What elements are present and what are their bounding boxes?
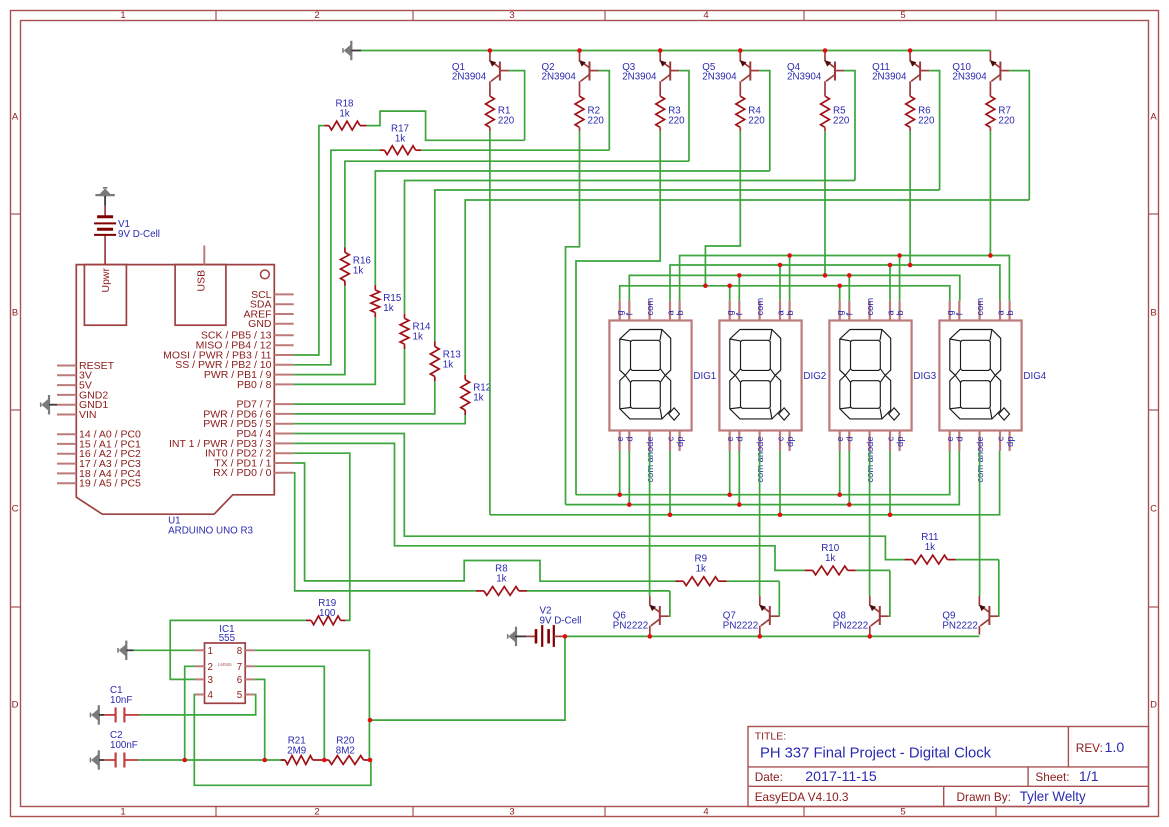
wire base loop Q6 [669, 591, 670, 616]
wire pin5 to C1 [140, 695, 256, 715]
wire base loop Q4 [844, 71, 855, 181]
resistor R13 [430, 342, 439, 382]
labels DIG4 top pins [945, 298, 1015, 316]
svg-text:2N3904: 2N3904 [622, 72, 657, 83]
svg-text:7: 7 [237, 662, 242, 673]
svg-text:B: B [1150, 307, 1156, 318]
junction net g R4 [703, 284, 708, 289]
wire R13 to arduino [294, 381, 435, 414]
wire C2 to pin2 node [138, 759, 265, 761]
wire tap b DIG2 [789, 256, 791, 301]
svg-text:PH 337 Final Project - Digital: PH 337 Final Project - Digital Clock [760, 746, 992, 762]
resistor R11 [904, 555, 955, 564]
wire net c [490, 451, 1000, 515]
svg-text:1k: 1k [473, 393, 483, 404]
svg-text:1k: 1k [413, 331, 423, 342]
wire net base Q1 (R18) [367, 111, 525, 140]
junction net b R7 [988, 253, 993, 258]
svg-text:RX / PD0 / 0: RX / PD0 / 0 [213, 467, 272, 479]
wire R5 to net f [824, 131, 826, 275]
svg-text:5: 5 [237, 690, 243, 701]
svg-text:220: 220 [998, 116, 1015, 127]
svg-text:PB0 / 8: PB0 / 8 [237, 379, 272, 391]
svg-text:9V D-Cell: 9V D-Cell [118, 229, 160, 240]
svg-text:d: d [955, 437, 965, 442]
label Q7 [723, 610, 758, 631]
svg-text:2N3904: 2N3904 [787, 72, 822, 83]
svg-text:e: e [615, 437, 625, 442]
junction e DIG1 [617, 492, 622, 497]
svg-text:Date:: Date: [755, 770, 783, 784]
junction c DIG1 [668, 513, 673, 518]
wire base loop Q1 [509, 71, 525, 141]
svg-text:220: 220 [668, 116, 685, 127]
svg-text:555: 555 [219, 633, 236, 644]
ground above V1 [95, 188, 114, 206]
ground C1 [91, 705, 105, 724]
capacitor C2 [104, 753, 138, 768]
svg-text:4: 4 [208, 690, 214, 701]
junction net f R5 [823, 273, 828, 278]
display DIG1 body [609, 301, 691, 451]
wire base loop Q9 [997, 560, 999, 617]
svg-text:1k: 1k [395, 134, 405, 145]
wire tap g DIG2 [729, 286, 731, 301]
svg-text:dp: dp [785, 437, 795, 447]
svg-text:a: a [775, 310, 785, 316]
wire com anode DIG1 [649, 451, 651, 596]
wire pin6 down [255, 679, 265, 760]
svg-text:d: d [845, 437, 855, 442]
svg-text:2N3904: 2N3904 [452, 72, 487, 83]
label R8 [495, 563, 508, 584]
label Q3 [622, 62, 657, 83]
svg-text:Upwr: Upwr [100, 267, 112, 292]
svg-text:5: 5 [900, 807, 905, 818]
label R14 [413, 321, 432, 342]
labels DIG2 bottom pins [725, 436, 795, 482]
wire R14 to arduino [294, 349, 405, 404]
svg-text:2N3904: 2N3904 [952, 72, 987, 83]
label IC1 [219, 624, 236, 644]
wire net f [629, 275, 960, 300]
wire R15 to arduino [294, 317, 376, 384]
wire R17 to pin10 [294, 150, 380, 365]
transistor Q4 [825, 51, 845, 97]
svg-text:1: 1 [208, 646, 213, 657]
svg-text:1k: 1k [925, 542, 935, 553]
arduino U1 body [76, 246, 274, 515]
junction a DIG2 [778, 263, 783, 268]
labels DIG2 top pins [725, 298, 795, 316]
title block [748, 727, 1149, 807]
display DIG2 body [719, 301, 801, 451]
svg-text:1k: 1k [496, 573, 506, 584]
junction bus Q4 [823, 48, 828, 53]
wire net b [680, 256, 1010, 301]
svg-text:1k: 1k [825, 553, 835, 564]
svg-text:9V D-Cell: 9V D-Cell [540, 616, 582, 627]
wire com anode DIG4 [979, 451, 981, 596]
wire R18 to pin11 [294, 126, 325, 355]
junction 555 node (265,760) [262, 758, 267, 763]
arduino left pins [57, 360, 141, 490]
label Q1 [452, 62, 487, 83]
svg-text:4: 4 [703, 10, 708, 21]
label R13 [443, 350, 462, 371]
svg-text:com: com [975, 298, 985, 316]
wire base loop Q11 [929, 71, 940, 190]
resistor R16 [341, 248, 350, 286]
resistor R5 [821, 96, 830, 131]
wire tap e DIG1 [619, 451, 621, 495]
svg-text:dp: dp [1005, 437, 1015, 447]
svg-text:f: f [845, 313, 855, 316]
resistor R10 [805, 566, 856, 575]
wire net d [566, 451, 960, 505]
wire tap f DIG3 [848, 275, 850, 300]
wire tap g DIG3 [839, 286, 841, 301]
svg-text:b: b [895, 310, 905, 315]
display DIG4 segments [950, 330, 1010, 421]
svg-text:1.0: 1.0 [1105, 740, 1125, 756]
svg-text:220: 220 [833, 116, 850, 127]
svg-text:A: A [12, 111, 19, 122]
svg-text:f: f [735, 313, 745, 316]
label C2 [110, 730, 138, 751]
junction f DIG3 [847, 273, 852, 278]
wire base loop Q8 [889, 570, 890, 616]
resistor R3 [656, 96, 665, 131]
svg-text:GND: GND [248, 318, 272, 330]
label Q4 [787, 62, 822, 83]
svg-text:g: g [725, 310, 735, 315]
wire net e [576, 451, 950, 495]
svg-text:2: 2 [314, 10, 319, 21]
svg-text:A: A [1150, 111, 1157, 122]
transistor Q10 [990, 51, 1010, 97]
resistor R19 [306, 616, 346, 625]
svg-text:f: f [625, 313, 635, 316]
svg-text:dp: dp [895, 437, 905, 447]
wire tap c DIG1 [669, 451, 671, 515]
wire R4 to net g [705, 131, 740, 285]
svg-text:100: 100 [319, 608, 336, 619]
label R19 [318, 598, 336, 619]
label R1 [498, 106, 515, 127]
svg-text:PN2222: PN2222 [613, 621, 648, 632]
wire base loop Q7 [778, 581, 781, 616]
wire net base Q5 (R15) [375, 171, 770, 285]
svg-text:1: 1 [120, 10, 125, 21]
junction c DIG2 [778, 513, 783, 518]
junction 555 node (324,760) [322, 758, 327, 763]
junction g DIG3 [837, 284, 842, 289]
label R4 [748, 106, 765, 127]
wire pin2 to C2 net [185, 666, 195, 760]
wire R1 to net c [489, 131, 491, 515]
wire PD1 to R9 [294, 463, 676, 581]
svg-text:e: e [945, 437, 955, 442]
wire net g [620, 286, 950, 301]
junction e DIG2 [727, 492, 732, 497]
label R10 [821, 543, 840, 564]
label R9 [695, 554, 708, 575]
resistor R17 [380, 146, 421, 155]
svg-text:b: b [675, 310, 685, 315]
wire PD0 to R8 [294, 473, 476, 591]
junction bus Q5 [738, 48, 743, 53]
transistor Q7 [759, 596, 779, 635]
battery V1 [94, 206, 116, 265]
wire PD3 to R10 [294, 443, 805, 570]
svg-text:e: e [725, 437, 735, 442]
wire base loop Q10 [1009, 71, 1029, 200]
svg-text:1k: 1k [696, 564, 706, 575]
svg-text:DIG2: DIG2 [803, 371, 826, 382]
resistor R20 [324, 756, 370, 765]
svg-text:f: f [955, 313, 965, 316]
svg-text:com: com [865, 298, 875, 316]
label R15 [383, 293, 402, 314]
wire pin8 to vcc [255, 650, 370, 760]
labels DIG1 top pins [615, 298, 685, 316]
transistor Q2 [579, 51, 599, 97]
junction e DIG3 [837, 492, 842, 497]
label R20 [336, 736, 355, 757]
junction 555 node (370,760) [368, 758, 373, 763]
ground 555 pin1 [118, 641, 134, 660]
svg-text:DIG1: DIG1 [693, 371, 716, 382]
junction d DIG1 [627, 502, 632, 507]
wire net base Q11 (R13) [435, 190, 940, 343]
junction bus Q1 [488, 48, 493, 53]
wire tap d DIG3 [848, 451, 850, 505]
display DIG2 segments [730, 330, 790, 421]
ground C2 [91, 750, 105, 769]
junction net a R6 [908, 263, 913, 268]
transistor Q9 [979, 596, 999, 635]
wire PD4 to R11 [294, 434, 905, 560]
resistor R8 [476, 587, 527, 596]
wire emitter rail [564, 635, 980, 637]
transistor Q1 [489, 51, 509, 97]
wire tap a DIG3 [889, 265, 891, 301]
junction b DIG3 [897, 253, 902, 258]
wire net base Q3 (R16) [345, 161, 689, 247]
capacitor C1 [104, 707, 140, 722]
svg-text:g: g [615, 310, 625, 315]
resistor R12 [461, 375, 470, 415]
svg-text:d: d [625, 437, 635, 442]
transistor Q6 [649, 596, 669, 635]
label V2 [540, 606, 582, 627]
svg-text:PN2222: PN2222 [942, 621, 977, 632]
svg-text:2: 2 [314, 807, 319, 818]
svg-text:a: a [995, 310, 1005, 316]
wire R19 to PD2 [294, 453, 350, 620]
resistor R2 [575, 96, 584, 131]
svg-text:TITLE:: TITLE: [755, 731, 787, 743]
svg-text:C: C [1150, 503, 1157, 514]
svg-text:d: d [735, 437, 745, 442]
svg-text:b: b [785, 310, 795, 315]
svg-text:3: 3 [509, 10, 514, 21]
svg-text:2: 2 [208, 662, 213, 673]
svg-text:b: b [1005, 310, 1015, 315]
wire R12 to arduino [294, 415, 466, 424]
junction 555 node (185,760) [182, 758, 187, 763]
svg-text:USB: USB [196, 270, 208, 292]
svg-text:a: a [885, 310, 895, 316]
svg-text:PN2222: PN2222 [723, 621, 758, 632]
wire tap a DIG2 [779, 265, 781, 301]
svg-text:220: 220 [748, 116, 765, 127]
svg-text:D: D [12, 699, 19, 710]
svg-text:D: D [1150, 699, 1157, 710]
transistor Q8 [869, 596, 889, 635]
wire R10 right to Q8 [856, 569, 890, 571]
wire R2 to net d [566, 131, 580, 504]
wire pin3 to R19 [170, 620, 306, 679]
label R11 [921, 532, 938, 553]
resistor R15 [371, 285, 380, 317]
junction bus Q2 [577, 48, 582, 53]
svg-text:5: 5 [900, 10, 905, 21]
junction bus Q3 [658, 48, 663, 53]
resistor R14 [400, 314, 409, 350]
label Q10 [952, 62, 987, 83]
svg-text:1k: 1k [383, 303, 393, 314]
svg-text:4: 4 [703, 807, 708, 818]
svg-text:10nF: 10nF [110, 695, 132, 706]
wire tap c DIG2 [779, 451, 781, 515]
junction f DIG2 [737, 273, 742, 278]
resistor R9 [675, 577, 726, 586]
svg-text:1/1: 1/1 [1079, 769, 1099, 785]
junction a DIG3 [888, 263, 893, 268]
svg-text:a: a [665, 310, 675, 316]
wire R16 to arduino [294, 286, 345, 375]
svg-text:Drawn By:: Drawn By: [957, 790, 1011, 804]
label Q6 [613, 610, 648, 631]
label Q9 [942, 610, 977, 631]
wire com anode DIG2 [759, 451, 761, 596]
label R21 [287, 736, 306, 757]
label DIG1 [693, 371, 716, 382]
wire base loop Q5 [759, 71, 770, 171]
resistor R6 [906, 96, 915, 131]
resistor R18 [325, 121, 367, 130]
svg-text:PN2222: PN2222 [833, 621, 868, 632]
svg-text:dp: dp [675, 437, 685, 447]
labels DIG4 bottom pins [945, 436, 1015, 482]
svg-text:g: g [945, 310, 955, 315]
junction rail Q6 [648, 634, 653, 639]
label Q5 [702, 62, 737, 83]
labels DIG3 bottom pins [835, 436, 905, 482]
wire net base Q10 (R12) [465, 200, 1029, 375]
wire R11 right to Q9 [956, 559, 999, 561]
wire R3 to net e [576, 131, 660, 494]
junction rail Q7 [758, 634, 763, 639]
display DIG3 segments [840, 330, 900, 421]
svg-text:3: 3 [208, 675, 214, 686]
display DIG4 body [939, 301, 1021, 451]
svg-text:VIN: VIN [79, 409, 97, 421]
wire R9 right to Q7 [727, 580, 780, 582]
wire tap d DIG1 [628, 451, 630, 505]
wire R8 right to Q6 [527, 590, 670, 592]
battery V2 [526, 625, 564, 647]
junction g DIG2 [727, 284, 732, 289]
svg-text:1k: 1k [339, 109, 349, 120]
wire net a [670, 265, 1000, 301]
svg-text:e: e [835, 437, 845, 442]
svg-text:c: c [995, 436, 1005, 441]
junction d DIG2 [737, 502, 742, 507]
wire net base Q2 (R17) [421, 149, 609, 151]
ic U555 IC1 [195, 643, 255, 703]
svg-text:REV:: REV: [1076, 741, 1103, 755]
junction bus Q11 [908, 48, 913, 53]
label R5 [833, 106, 850, 127]
label R7 [998, 106, 1015, 127]
svg-text:Sheet:: Sheet: [1035, 770, 1069, 784]
label R2 [588, 106, 605, 127]
label R3 [668, 106, 685, 127]
junction rail Q8 [868, 634, 873, 639]
wire R7 to net b [989, 131, 991, 255]
transistor Q11 [910, 51, 930, 97]
svg-text:Tyler Welty: Tyler Welty [1020, 789, 1086, 804]
wire base loop Q2 [599, 71, 610, 151]
label Q8 [833, 610, 868, 631]
svg-text:c: c [885, 436, 895, 441]
svg-text:3: 3 [509, 807, 514, 818]
label DIG4 [1023, 371, 1046, 382]
svg-text:com: com [755, 298, 765, 316]
wire tap d DIG2 [738, 451, 740, 505]
junction b DIG2 [787, 253, 792, 258]
label U1 [168, 516, 253, 537]
ground GND1 [41, 395, 57, 414]
junction rail V2 [563, 634, 568, 639]
svg-text:DIG4: DIG4 [1023, 371, 1046, 382]
junction c DIG3 [888, 513, 893, 518]
label R18 [336, 99, 355, 120]
ground at V2 [508, 627, 526, 646]
wire tap c DIG3 [889, 451, 891, 515]
labels DIG3 top pins [835, 298, 905, 316]
wire V2 to 555 VCC [370, 636, 565, 720]
svg-text:C: C [12, 503, 19, 514]
label DIG3 [913, 371, 936, 382]
svg-text:6: 6 [237, 675, 243, 686]
junction d DIG3 [847, 502, 852, 507]
svg-text:1k: 1k [353, 265, 363, 276]
svg-text:8M2: 8M2 [336, 746, 355, 757]
resistor R4 [736, 96, 745, 131]
wire tap e DIG2 [729, 451, 731, 495]
wire pin7 down [255, 666, 325, 760]
svg-text:220: 220 [918, 116, 935, 127]
label R12 [473, 383, 491, 404]
svg-text:2017-11-15: 2017-11-15 [805, 769, 877, 785]
svg-text:g: g [835, 310, 845, 315]
label DIG2 [803, 371, 826, 382]
transistor Q3 [660, 51, 680, 97]
